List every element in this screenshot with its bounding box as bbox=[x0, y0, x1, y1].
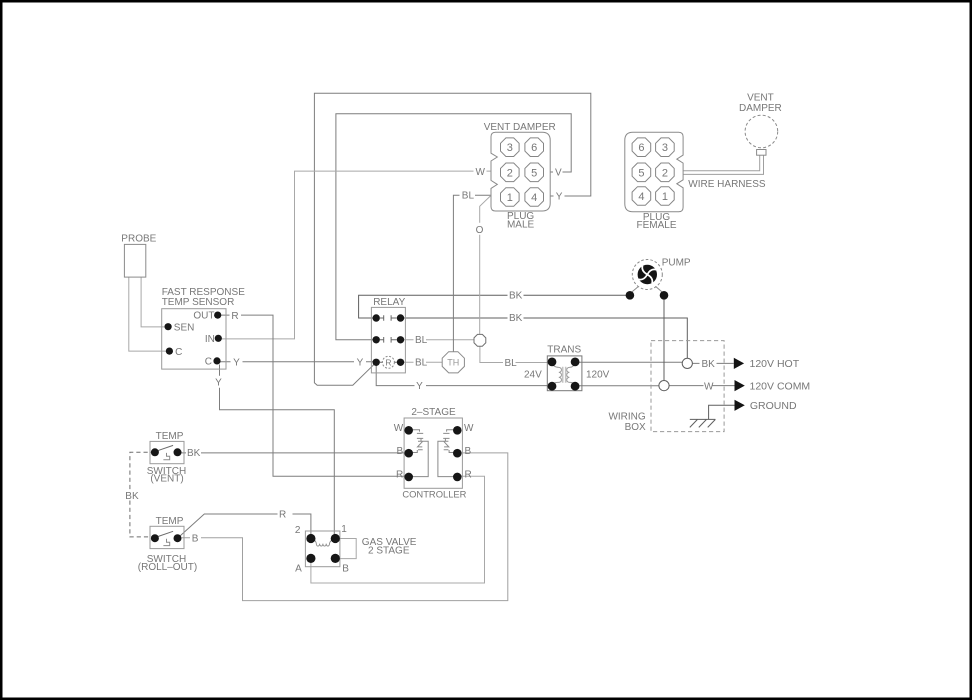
node W label at plug male bbox=[476, 167, 486, 178]
svg-text:TH: TH bbox=[447, 358, 459, 368]
wire BK relay top-right to wirenut BK bbox=[401, 318, 688, 358]
wire Y plug-pin4 to relay coil bbox=[314, 93, 590, 385]
wire R sensor-OUT to controller left-R bbox=[218, 315, 409, 476]
controller 2-STAGE bbox=[394, 407, 474, 500]
node BK label at vent switch bbox=[187, 448, 201, 459]
relay K1 bbox=[371, 297, 405, 373]
svg-text:Y: Y bbox=[357, 357, 364, 368]
pin 3 plug male bbox=[501, 138, 520, 157]
wire BK vent switch to controller left-B bbox=[178, 452, 409, 454]
svg-text:BK: BK bbox=[125, 491, 139, 502]
pump M1 bbox=[626, 258, 691, 300]
svg-text:TEMP: TEMP bbox=[156, 516, 184, 527]
svg-text:BK: BK bbox=[509, 290, 523, 301]
svg-text:R: R bbox=[231, 311, 238, 322]
svg-text:TRANS: TRANS bbox=[547, 345, 581, 356]
wire BL plug-pin1 down to TH top bbox=[453, 195, 491, 351]
wire 120V transformer top-right to wirenut BK bbox=[575, 361, 682, 363]
wire dashed BK field wiring between temp switches bbox=[130, 452, 155, 537]
wiring box dashed enclosure bbox=[608, 341, 724, 434]
vent damper actuator bbox=[739, 93, 782, 156]
svg-text:BL: BL bbox=[462, 191, 475, 202]
wire BK relay top-left to pump left terminal bbox=[359, 295, 630, 318]
pin 4 plug female bbox=[632, 187, 651, 206]
svg-text:GROUND: GROUND bbox=[750, 400, 797, 412]
pin 1 plug female bbox=[656, 187, 675, 206]
node BL label relay bottom bbox=[415, 358, 428, 369]
svg-text:CONTROLLER: CONTROLLER bbox=[402, 489, 466, 500]
wire V plug-pin5 to relay middle-left bbox=[336, 114, 571, 340]
pin 3 plug female bbox=[656, 138, 675, 157]
node BL label before transformer bbox=[505, 358, 518, 369]
svg-text:B: B bbox=[465, 446, 472, 457]
pin 5 plug female bbox=[632, 163, 651, 182]
node R label at sensor bbox=[231, 311, 238, 322]
svg-text:WIRE HARNESS: WIRE HARNESS bbox=[688, 179, 766, 190]
wire harness double line bbox=[683, 155, 763, 174]
svg-text:IN: IN bbox=[205, 334, 215, 345]
wire BL relay middle-right to junction ball bbox=[401, 339, 475, 341]
temp switch (vent) bbox=[147, 431, 186, 485]
svg-text:120V HOT: 120V HOT bbox=[750, 358, 800, 370]
svg-text:O: O bbox=[476, 225, 484, 236]
node BK label on wire y318 bbox=[509, 313, 523, 324]
svg-text:2 STAGE: 2 STAGE bbox=[368, 545, 410, 556]
node BL label relay middle bbox=[415, 335, 428, 346]
node B label at roll-out switch bbox=[192, 533, 199, 544]
wire Y sensor-C to relay coil-left bbox=[217, 361, 376, 363]
sensor FAST RESPONSE TEMP SENSOR bbox=[162, 287, 246, 369]
pin 6 plug female bbox=[632, 138, 651, 157]
svg-text:TEMP SENSOR: TEMP SENSOR bbox=[162, 297, 235, 308]
svg-text:2–STAGE: 2–STAGE bbox=[411, 407, 456, 418]
node Y label on 24V wire bbox=[416, 381, 423, 392]
svg-text:FEMALE: FEMALE bbox=[636, 220, 676, 231]
wire probe left lead to sensor C bbox=[129, 277, 170, 351]
node V label at plug male bbox=[555, 168, 562, 179]
svg-text:120V: 120V bbox=[586, 369, 610, 380]
node Y label at plug male bbox=[556, 192, 563, 203]
svg-text:Y: Y bbox=[215, 377, 222, 388]
svg-text:MALE: MALE bbox=[507, 219, 535, 230]
probe PROBE bbox=[121, 233, 156, 277]
wire B roll-out switch to controller right-B bbox=[182, 453, 508, 601]
svg-text:2: 2 bbox=[662, 167, 668, 179]
svg-text:Y: Y bbox=[416, 381, 423, 392]
terminal arrow 120V COMM bbox=[735, 380, 811, 392]
svg-text:W: W bbox=[464, 423, 474, 434]
svg-text:Y: Y bbox=[556, 192, 563, 203]
wire BL junction ball to transformer 24V top bbox=[480, 346, 552, 362]
wirenut W bbox=[659, 381, 669, 391]
svg-text:4: 4 bbox=[531, 192, 537, 204]
svg-text:BL: BL bbox=[415, 335, 428, 346]
svg-text:C: C bbox=[175, 347, 182, 358]
pin 4 plug male bbox=[525, 188, 544, 207]
pin 2 plug female bbox=[656, 163, 675, 182]
svg-text:2: 2 bbox=[295, 525, 301, 536]
node WIRE HARNESS label bbox=[688, 179, 766, 190]
svg-text:3: 3 bbox=[662, 142, 668, 154]
pin 6 plug male bbox=[525, 138, 544, 157]
pin 1 plug male bbox=[501, 188, 520, 207]
wire Y sensor-C down to gas valve pin1 bbox=[220, 365, 335, 539]
svg-text:BK: BK bbox=[509, 313, 523, 324]
wire W wirenut to 120V COMM triangle bbox=[669, 385, 734, 387]
svg-text:6: 6 bbox=[638, 142, 644, 154]
wire Y 24V relay coil to transformer bottom bbox=[376, 362, 552, 385]
temp switch (roll-out) bbox=[138, 516, 197, 573]
plug male outline bbox=[484, 122, 556, 231]
node BK label on wire y295 bbox=[509, 290, 523, 301]
svg-text:1: 1 bbox=[341, 524, 347, 535]
svg-text:1: 1 bbox=[662, 191, 668, 203]
wire probe right lead to sensor SEN bbox=[141, 277, 168, 327]
svg-text:R: R bbox=[396, 469, 403, 480]
svg-text:W: W bbox=[394, 423, 404, 434]
svg-text:W: W bbox=[476, 167, 486, 178]
svg-text:W: W bbox=[704, 381, 714, 392]
node O label on vent damper wire bbox=[476, 225, 484, 236]
svg-text:BK: BK bbox=[187, 448, 201, 459]
svg-text:5: 5 bbox=[531, 167, 537, 179]
svg-text:SEN: SEN bbox=[174, 322, 195, 333]
node R label near gas valve bbox=[279, 509, 286, 520]
svg-text:5: 5 bbox=[638, 167, 644, 179]
pin 2 plug male bbox=[501, 163, 520, 182]
wire jumper gas valve pin1 to B bbox=[335, 539, 356, 559]
node Y label below sensor bbox=[215, 377, 222, 388]
svg-text:R: R bbox=[465, 469, 472, 480]
plug female outline bbox=[625, 132, 683, 231]
svg-text:TEMP: TEMP bbox=[156, 431, 184, 442]
gas valve 2 stage bbox=[295, 524, 417, 574]
svg-text:PROBE: PROBE bbox=[121, 233, 156, 244]
svg-text:120V COMM: 120V COMM bbox=[750, 380, 811, 392]
svg-text:PUMP: PUMP bbox=[662, 258, 691, 269]
wire BK wirenut to 120V HOT triangle bbox=[692, 362, 733, 364]
svg-text:B: B bbox=[192, 533, 199, 544]
svg-text:B: B bbox=[342, 563, 349, 574]
svg-text:R: R bbox=[279, 509, 286, 520]
pin 5 plug male bbox=[525, 163, 544, 182]
wirenut BK bbox=[682, 358, 692, 368]
terminal arrow GROUND bbox=[735, 400, 797, 412]
node W label in wiring box bbox=[704, 381, 714, 392]
svg-text:1: 1 bbox=[507, 192, 513, 204]
svg-text:24V: 24V bbox=[524, 369, 542, 380]
node 120V label bbox=[586, 369, 610, 380]
svg-text:Y: Y bbox=[233, 357, 240, 368]
svg-text:BL: BL bbox=[415, 358, 428, 369]
svg-text:V: V bbox=[555, 168, 562, 179]
wire R roll-out switch to gas valve pin2 bbox=[178, 514, 311, 539]
svg-text:B: B bbox=[397, 446, 404, 457]
svg-text:(ROLL–OUT): (ROLL–OUT) bbox=[138, 562, 197, 573]
wire gas valve A to controller right-R bbox=[311, 476, 485, 583]
node Y label at sensor bbox=[233, 357, 240, 368]
wire ground lead and ground symbol bbox=[690, 405, 735, 427]
node BL label at plug pin1 bbox=[462, 191, 475, 202]
wire pump right terminal down to wirenut W bbox=[663, 295, 665, 380]
svg-text:VENT DAMPER: VENT DAMPER bbox=[484, 122, 556, 133]
node BK label in wiring box bbox=[702, 359, 716, 370]
svg-text:RELAY: RELAY bbox=[373, 297, 405, 308]
node 24V label bbox=[524, 369, 542, 380]
svg-text:4: 4 bbox=[638, 191, 644, 203]
svg-text:BK: BK bbox=[702, 359, 716, 370]
svg-text:OUT: OUT bbox=[193, 311, 214, 322]
node Y label left of relay bbox=[357, 357, 364, 368]
thermal switch TH bbox=[442, 352, 464, 373]
svg-text:DAMPER: DAMPER bbox=[739, 103, 782, 114]
wire O plug-pin1 down to junction ball top bbox=[480, 195, 491, 334]
wire W sensor-IN to plug-pin2 bbox=[218, 171, 491, 339]
wire BL relay bottom-right to TH bbox=[401, 361, 443, 363]
wire 120V transformer bottom-right to wirenut W bbox=[575, 385, 659, 387]
transformer TRANS bbox=[547, 345, 582, 391]
junction ball O/BL octagon bbox=[474, 334, 486, 346]
svg-text:3: 3 bbox=[507, 142, 513, 154]
svg-text:C: C bbox=[205, 357, 212, 368]
terminal arrow 120V HOT bbox=[734, 358, 800, 370]
svg-text:BOX: BOX bbox=[625, 422, 646, 433]
node BK label on dashed wire bbox=[125, 491, 139, 502]
svg-text:2: 2 bbox=[507, 167, 513, 179]
svg-text:BL: BL bbox=[505, 358, 518, 369]
svg-text:A: A bbox=[295, 563, 302, 574]
svg-text:6: 6 bbox=[531, 142, 537, 154]
svg-text:WIRING: WIRING bbox=[608, 412, 645, 423]
svg-text:R: R bbox=[385, 357, 391, 367]
svg-text:(VENT): (VENT) bbox=[150, 474, 183, 485]
